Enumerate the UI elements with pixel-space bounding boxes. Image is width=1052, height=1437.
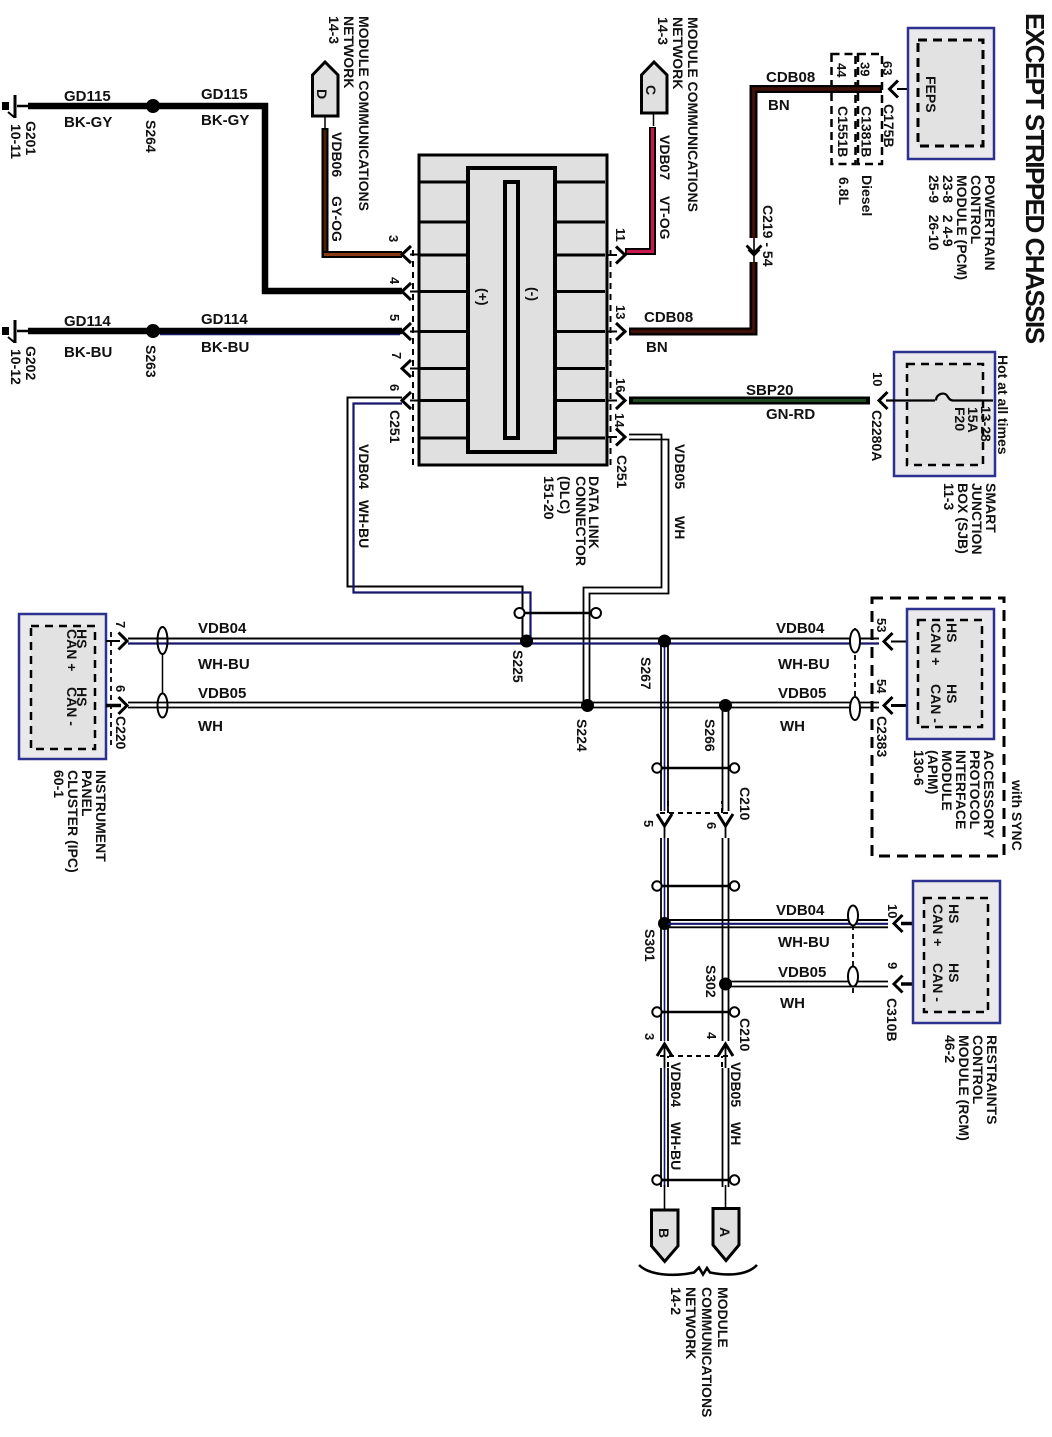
connector B (off-page arrow) xyxy=(652,1210,679,1262)
svg-text:Diesel: Diesel xyxy=(859,175,875,216)
svg-text:MODULE: MODULE xyxy=(715,1287,731,1348)
arrow DLC pin 16 xyxy=(606,400,617,402)
SJB module box xyxy=(894,352,995,476)
svg-text:BK-BU: BK-BU xyxy=(64,344,112,361)
svg-text:13: 13 xyxy=(613,305,628,319)
DLC key slot xyxy=(505,182,518,438)
svg-text:130-6: 130-6 xyxy=(911,750,927,786)
RCM module box xyxy=(913,881,1000,1023)
svg-text:WH-BU: WH-BU xyxy=(778,934,830,951)
wire VDB05 vertical segment 2 (to S302) xyxy=(723,838,729,1041)
svg-text:GY-OG: GY-OG xyxy=(329,196,345,242)
svg-text:(-): (-) xyxy=(525,287,541,301)
svg-text:VT-OG: VT-OG xyxy=(657,196,673,240)
svg-text:COMMUNICATIONS: COMMUNICATIONS xyxy=(699,1287,715,1417)
svg-text:VDB04: VDB04 xyxy=(198,620,247,637)
arrow C210 pin 4 xyxy=(718,1044,733,1056)
wire SBP20 GN-RD from DLC pin 16 to SJB xyxy=(629,397,870,405)
svg-text:CAN -: CAN - xyxy=(64,687,80,726)
APIM outer dashed box (with SYNC) xyxy=(872,598,1004,856)
wire GD115 BK-GY : ground to S264 to bend to DLC pin 4 xyxy=(28,106,402,291)
svg-text:BK-GY: BK-GY xyxy=(64,114,112,131)
DLC inner box xyxy=(468,168,555,452)
wire stub D to VDB06 xyxy=(324,116,326,128)
connector D (off-page arrow) xyxy=(313,62,339,116)
svg-text:CAN -: CAN - xyxy=(930,963,946,1002)
svg-text:C310B: C310B xyxy=(884,998,900,1042)
svg-text:(+): (+) xyxy=(475,288,491,306)
svg-text:54: 54 xyxy=(874,679,889,694)
arrow into SJB xyxy=(879,392,888,409)
svg-text:A: A xyxy=(717,1227,733,1237)
DLC outer box xyxy=(419,155,607,465)
IPC module box xyxy=(19,614,106,759)
inline connector C2383 ellipses + dashed line xyxy=(854,628,856,720)
svg-text:HS: HS xyxy=(944,623,960,642)
svg-text:VDB07: VDB07 xyxy=(657,135,673,180)
svg-text:NETWORK: NETWORK xyxy=(670,17,686,89)
svg-text:39: 39 xyxy=(858,62,873,76)
splice S264 xyxy=(146,99,160,113)
svg-text:BK-BU: BK-BU xyxy=(201,339,249,356)
arrow DLC pin 6 xyxy=(402,392,411,409)
FEPS module box xyxy=(908,28,994,159)
svg-text:VDB05: VDB05 xyxy=(728,1062,744,1107)
arrow DLC pin 11 xyxy=(606,254,617,256)
svg-text:WH-BU: WH-BU xyxy=(356,500,372,548)
svg-text:C210: C210 xyxy=(737,787,753,821)
svg-text:BN: BN xyxy=(646,339,668,356)
svg-text:MODULE COMMUNICATIONS: MODULE COMMUNICATIONS xyxy=(685,17,701,212)
svg-text:VDB04: VDB04 xyxy=(668,1062,684,1107)
svg-text:B: B xyxy=(656,1228,672,1238)
svg-text:WH: WH xyxy=(780,995,805,1012)
svg-text:16: 16 xyxy=(613,378,628,392)
fuse F20 15A xyxy=(886,399,935,401)
splice S225 xyxy=(520,635,533,648)
wire stub to B xyxy=(664,1185,666,1210)
svg-text:S301: S301 xyxy=(642,929,658,962)
svg-text:VDB05: VDB05 xyxy=(672,444,688,489)
svg-text:CDB08: CDB08 xyxy=(766,69,815,86)
svg-text:63: 63 xyxy=(880,61,895,75)
wire VDB05 WH to RCM pin 9 xyxy=(726,981,889,983)
svg-text:10: 10 xyxy=(885,904,900,918)
arrow C210 pin 6 xyxy=(718,814,733,826)
svg-text:G202: G202 xyxy=(23,346,39,380)
svg-text:10-12: 10-12 xyxy=(8,349,24,385)
svg-text:(DLC): (DLC) xyxy=(557,476,573,514)
svg-text:CONNECTOR: CONNECTOR xyxy=(573,476,589,566)
inline connector C210 (pins 5,6) xyxy=(660,801,730,813)
svg-text:C1551B: C1551B xyxy=(835,106,851,157)
svg-text:HS: HS xyxy=(946,963,962,982)
dashed connector line C220 xyxy=(110,632,112,746)
DLC left pin stubs xyxy=(420,182,468,438)
svg-text:Hot at all times: Hot at all times xyxy=(995,355,1011,455)
svg-text:3: 3 xyxy=(642,1033,657,1040)
arrow DLC pin 7 (spare) xyxy=(402,360,411,377)
svg-text:WH: WH xyxy=(672,516,688,539)
svg-text:WH: WH xyxy=(780,718,805,735)
wire CDB08 BN from DLC pin 13 up to C219 xyxy=(629,262,754,332)
wire VDB04 WH-BU to RCM pin 10 xyxy=(665,919,889,921)
inline connector C219-54 xyxy=(753,238,755,262)
ground G202 xyxy=(8,320,28,343)
svg-text:CAN -: CAN - xyxy=(928,684,944,723)
svg-text:CAN +: CAN + xyxy=(930,904,946,946)
svg-text:VDB04: VDB04 xyxy=(356,444,372,489)
svg-text:151-20: 151-20 xyxy=(541,476,557,520)
svg-text:C175B: C175B xyxy=(881,104,897,148)
wire VDB04 vertical segment 2 (to S301) xyxy=(661,838,668,1041)
wire VDB04 WH-BU bus (IPC to APIM) xyxy=(128,638,879,640)
svg-text:VDB04: VDB04 xyxy=(776,902,825,919)
twisted pair tie xyxy=(652,1175,661,1184)
svg-text:14-3: 14-3 xyxy=(326,16,342,44)
svg-text:GD115: GD115 xyxy=(64,88,111,105)
svg-text:D: D xyxy=(314,89,330,99)
svg-text:7: 7 xyxy=(389,352,404,359)
splice S301 xyxy=(658,917,671,930)
splice S224 xyxy=(581,699,594,712)
splice S266 xyxy=(719,699,732,712)
arrow C210 pin 3 xyxy=(657,1044,672,1056)
svg-text:WH: WH xyxy=(198,718,223,735)
arrow DLC pin 5 xyxy=(402,323,411,340)
svg-text:CDB08: CDB08 xyxy=(644,309,693,326)
arrow DLC pin 14 xyxy=(606,436,617,438)
svg-text:G201: G201 xyxy=(23,121,39,155)
svg-text:6.8L: 6.8L xyxy=(836,177,852,205)
svg-text:WH-BU: WH-BU xyxy=(668,1122,684,1170)
twisted pair tie xyxy=(515,608,525,618)
wire stub to A xyxy=(725,1185,727,1209)
svg-text:7: 7 xyxy=(113,621,128,628)
svg-text:14-3: 14-3 xyxy=(655,17,671,45)
svg-text:NETWORK: NETWORK xyxy=(683,1287,699,1359)
svg-text:11: 11 xyxy=(613,228,628,242)
wire stub C to VDB07 xyxy=(653,113,655,126)
svg-text:CAN +: CAN + xyxy=(928,623,944,665)
svg-text:14: 14 xyxy=(612,413,627,428)
svg-text:S224: S224 xyxy=(574,719,590,752)
twisted pair tie xyxy=(652,881,661,890)
svg-text:GD114: GD114 xyxy=(64,313,111,330)
svg-text:6: 6 xyxy=(387,384,402,391)
svg-text:S225: S225 xyxy=(510,650,526,683)
svg-text:SBP20: SBP20 xyxy=(746,382,794,399)
svg-text:C251: C251 xyxy=(387,410,403,444)
svg-text:CAN +: CAN + xyxy=(64,629,80,671)
svg-text:C: C xyxy=(643,85,659,95)
svg-text:3: 3 xyxy=(386,235,401,242)
svg-text:9: 9 xyxy=(885,962,900,969)
svg-text:HS: HS xyxy=(946,904,962,923)
svg-text:53: 53 xyxy=(874,618,889,632)
svg-text:C219 - 54: C219 - 54 xyxy=(760,205,776,267)
arrow C210 pin 5 xyxy=(657,814,672,826)
svg-text:VDB05: VDB05 xyxy=(198,685,246,702)
twisted pair tie xyxy=(652,763,661,772)
svg-text:46-2: 46-2 xyxy=(942,1035,958,1063)
svg-text:WH-BU: WH-BU xyxy=(778,656,830,673)
svg-text:5: 5 xyxy=(641,820,656,827)
svg-text:C251: C251 xyxy=(614,455,630,489)
svg-text:6: 6 xyxy=(704,822,719,829)
svg-text:10: 10 xyxy=(870,372,885,386)
connector C (off-page arrow) xyxy=(642,62,668,113)
svg-text:BN: BN xyxy=(768,97,790,114)
wire CDB08 BN from C219 to FEPS xyxy=(754,89,883,238)
svg-text:6: 6 xyxy=(113,685,128,692)
svg-text:44: 44 xyxy=(834,63,849,78)
svg-text:11-3: 11-3 xyxy=(941,483,957,510)
svg-text:VDB05: VDB05 xyxy=(778,964,826,981)
svg-text:FEPS: FEPS xyxy=(923,76,939,113)
dashed connector line C251 right xyxy=(610,250,612,465)
svg-text:NETWORK: NETWORK xyxy=(341,16,357,88)
ground G201 xyxy=(8,95,28,118)
splice S263 xyxy=(146,324,160,338)
svg-text:25-9 26-10: 25-9 26-10 xyxy=(926,175,942,251)
svg-text:VDB06: VDB06 xyxy=(329,132,345,177)
svg-text:VDB05: VDB05 xyxy=(778,685,826,702)
svg-text:4: 4 xyxy=(387,277,402,285)
wire VDB06 GY-OG xyxy=(325,128,402,255)
wire VDB05 vertical segment 3 xyxy=(723,1068,729,1187)
svg-text:GD114: GD114 xyxy=(201,311,248,328)
svg-text:S267: S267 xyxy=(638,657,654,690)
wire VDB05 WH from DLC pin 14 down-left to S224 xyxy=(584,435,662,705)
arrow into FEPS xyxy=(890,81,899,98)
wire VDB04 WH-BU from DLC pin 6 down to S225 xyxy=(348,398,523,641)
svg-text:C2383: C2383 xyxy=(874,716,890,757)
svg-text:S264: S264 xyxy=(143,120,159,153)
svg-text:14-2: 14-2 xyxy=(668,1287,684,1315)
arrow DLC pin 3 xyxy=(402,246,411,263)
inline connector C310B ellipses + dashed line xyxy=(852,907,854,996)
wire VDB04 vertical (S267 down) segment 1 xyxy=(661,641,668,811)
connector box C1381B (Diesel) xyxy=(858,54,882,164)
svg-text:C2280A: C2280A xyxy=(869,410,885,461)
connector A (off-page arrow) xyxy=(713,1209,739,1261)
svg-text:GD115: GD115 xyxy=(201,86,248,103)
DLC right pin stubs xyxy=(555,182,605,438)
svg-text:GN-RD: GN-RD xyxy=(766,406,815,423)
dashed connector line C251 left xyxy=(412,250,414,465)
svg-text:VDB04: VDB04 xyxy=(776,620,825,637)
wire GD114 BK-BU : ground to S263 to DLC pin 5 xyxy=(28,328,402,335)
splice S302 xyxy=(719,978,732,991)
svg-text:4: 4 xyxy=(704,1032,719,1040)
svg-text:WH: WH xyxy=(728,1122,744,1145)
svg-text:S263: S263 xyxy=(143,345,159,378)
svg-text:13-28: 13-28 xyxy=(978,406,994,442)
arrow DLC pin 4 xyxy=(402,283,411,300)
APIM module box xyxy=(907,609,994,739)
brace xyxy=(639,1265,757,1275)
svg-text:BK-GY: BK-GY xyxy=(201,112,249,129)
svg-text:C1381B: C1381B xyxy=(859,106,875,157)
wire VDB04 vertical segment 3 xyxy=(661,1068,668,1187)
inline connector C220 ellipses xyxy=(158,627,168,654)
svg-text:10-11: 10-11 xyxy=(8,124,24,159)
svg-text:C210: C210 xyxy=(737,1018,753,1052)
svg-text:60-1: 60-1 xyxy=(51,770,67,798)
wire VDB05 WH bus (IPC to APIM) xyxy=(128,702,879,704)
splice S267 xyxy=(658,635,671,648)
wire VDB07 VT-OG from C to DLC pin 11 xyxy=(625,127,653,252)
connector box C1551B (6.8L) xyxy=(832,54,856,164)
arrow DLC pin 13 xyxy=(606,331,617,333)
svg-text:EXCEPT STRIPPED CHASSIS: EXCEPT STRIPPED CHASSIS xyxy=(1020,13,1050,344)
svg-text:MODULE COMMUNICATIONS: MODULE COMMUNICATIONS xyxy=(356,16,372,211)
svg-text:5: 5 xyxy=(387,314,402,321)
svg-text:S266: S266 xyxy=(702,719,718,752)
wire VDB05 vertical (S266 down) segment 1 xyxy=(723,706,729,811)
svg-text:HS: HS xyxy=(944,684,960,703)
svg-text:S302: S302 xyxy=(703,965,719,998)
svg-text:with SYNC: with SYNC xyxy=(1009,779,1025,851)
svg-text:C220: C220 xyxy=(113,716,129,750)
twisted pair tie xyxy=(652,1007,661,1016)
svg-text:WH-BU: WH-BU xyxy=(198,656,250,673)
